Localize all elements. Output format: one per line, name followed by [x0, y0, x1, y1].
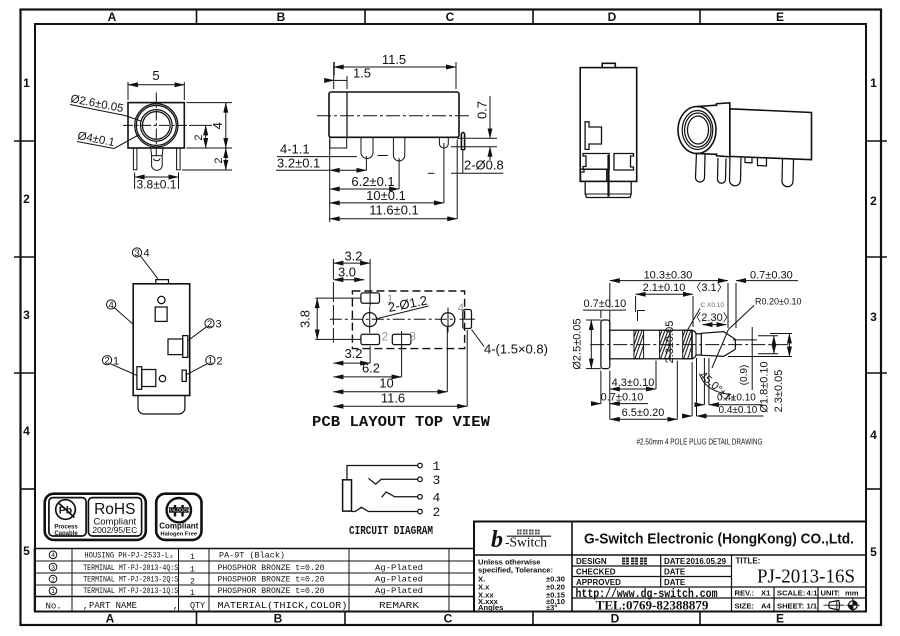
- svg-text:b: b: [491, 527, 503, 553]
- svg-text:Ag-Plated: Ag-Plated: [375, 564, 423, 573]
- svg-text:E: E: [776, 10, 784, 24]
- svg-text:PHOSPHOR BRONZE t=0.20: PHOSPHOR BRONZE t=0.20: [218, 587, 325, 596]
- lower-left clip: [581, 169, 607, 181]
- pad 2: [361, 334, 380, 344]
- svg-text:#2.50mm 4 POLE PLUG DETAIL DRA: #2.50mm 4 POLE PLUG DETAIL DRAWING: [637, 438, 763, 447]
- callout 2-3: [188, 319, 214, 341]
- centerlines: [123, 124, 189, 126]
- hole 1: [363, 313, 377, 327]
- svg-text:3.0: 3.0: [338, 265, 356, 280]
- insulator band 2: [660, 330, 671, 359]
- pad 4: [463, 310, 472, 329]
- left bracket notch: [585, 122, 601, 150]
- svg-text:REV.:: REV.:: [735, 589, 755, 598]
- svg-text:Compliant: Compliant: [159, 522, 198, 531]
- svg-text:Ø1.8±0.10: Ø1.8±0.10: [759, 361, 771, 412]
- svg-text:11.6: 11.6: [381, 390, 405, 405]
- callout 3-4: [132, 248, 157, 279]
- pin1 terminal: [418, 463, 423, 468]
- svg-text:SHEET:: SHEET:: [777, 602, 804, 611]
- barrel rings: [135, 104, 178, 147]
- svg-text:5: 5: [23, 544, 30, 558]
- svg-text:3.2: 3.2: [344, 248, 362, 263]
- svg-text:2.1±0.10: 2.1±0.10: [643, 282, 686, 294]
- svg-text:2: 2: [216, 355, 222, 367]
- svg-text:1/1: 1/1: [807, 602, 818, 611]
- rev/scale/unit: [735, 589, 859, 611]
- svg-text:C X0.10: C X0.10: [701, 302, 725, 309]
- callout 4: [107, 300, 134, 324]
- svg-text:0.7±0.10: 0.7±0.10: [584, 298, 627, 310]
- axis centerline: [317, 115, 471, 117]
- svg-text:4-(1.5×0.8): 4-(1.5×0.8): [484, 342, 548, 357]
- dim 2 (body bottom to leg end): [182, 148, 232, 170]
- svg-text:3: 3: [134, 248, 139, 259]
- center pin: [151, 148, 163, 170]
- hole 4: [441, 313, 455, 327]
- svg-text:DESIGN: DESIGN: [576, 557, 607, 566]
- svg-text:PJ-2013-16S: PJ-2013-16S: [757, 566, 855, 588]
- svg-text:1: 1: [208, 356, 213, 367]
- shaft: [610, 330, 692, 359]
- svg-text:(0.9): (0.9): [739, 365, 750, 386]
- svg-text:4: 4: [210, 122, 225, 129]
- svg-text:2-Ø0.8: 2-Ø0.8: [464, 158, 504, 173]
- svg-text:1: 1: [433, 459, 441, 474]
- svg-text:1: 1: [113, 355, 119, 367]
- left clip tab: [583, 154, 609, 170]
- pin A: [361, 137, 373, 158]
- terminal 2/1 pin: [137, 367, 142, 390]
- svg-text:Process: Process: [54, 525, 78, 531]
- flange plate: [717, 103, 730, 157]
- svg-text:Angles: Angles: [478, 603, 503, 612]
- svg-text:CIRCUIT DIAGRAM: CIRCUIT DIAGRAM: [349, 524, 433, 538]
- svg-text:No.: No.: [46, 602, 62, 612]
- svg-text:2002/95/EC: 2002/95/EC: [92, 525, 137, 535]
- svg-text:4: 4: [108, 300, 113, 311]
- jack body front: [128, 103, 184, 148]
- svg-text:2.3±0.05: 2.3±0.05: [664, 321, 676, 364]
- svg-text:E: E: [776, 612, 784, 626]
- pin C: [439, 137, 448, 148]
- svg-text:〈3.1〉: 〈3.1〉: [690, 281, 727, 294]
- svg-text:UNIT:: UNIT:: [821, 589, 840, 598]
- svg-text:0.7±0.30: 0.7±0.30: [750, 270, 793, 282]
- bottom boss: [138, 396, 185, 415]
- right leg: [177, 148, 181, 170]
- part rows: [83, 552, 423, 598]
- svg-text:10±0.1: 10±0.1: [366, 188, 406, 203]
- svg-text:6.2: 6.2: [362, 361, 380, 376]
- Pb-free + RoHS badge: [45, 494, 146, 540]
- insulator band 1: [634, 330, 644, 359]
- svg-text:APPROVED: APPROVED: [576, 578, 621, 587]
- svg-text:2: 2: [190, 578, 195, 587]
- svg-text:2: 2: [213, 157, 225, 163]
- svg-text:PHOSPHOR BRONZE t=0.20: PHOSPHOR BRONZE t=0.20: [218, 564, 325, 573]
- svg-text:TERMINAL MT-PJ-2013-2Q:S: TERMINAL MT-PJ-2013-2Q:S: [83, 576, 178, 585]
- top tab: [602, 63, 615, 67]
- terminal window: [155, 307, 167, 321]
- wire tip to pin1: [347, 466, 418, 480]
- svg-text:D: D: [611, 612, 620, 626]
- terminal numbers: [433, 459, 441, 520]
- svg-text:REMARK: REMARK: [379, 601, 420, 611]
- svg-text:±3°: ±3°: [546, 603, 557, 612]
- svg-text:5: 5: [152, 68, 159, 83]
- barrel cylinder: [678, 107, 716, 154]
- insulator band 3: [683, 330, 693, 359]
- svg-text:2: 2: [870, 194, 877, 208]
- svg-text:10.3±0.30: 10.3±0.30: [644, 270, 693, 282]
- svg-text:PART NAME: PART NAME: [89, 601, 137, 611]
- svg-text:Halogen Free: Halogen Free: [160, 532, 197, 538]
- housing outline (bottom view): [133, 284, 190, 396]
- connector top view body: [580, 68, 637, 182]
- tolerance block: [478, 558, 566, 613]
- main box: [730, 109, 812, 160]
- svg-text:0.4±0.10: 0.4±0.10: [719, 405, 758, 416]
- Halogen-free badge: [156, 494, 201, 540]
- dim 0.7 (right): [451, 96, 497, 160]
- pad 3: [392, 334, 411, 344]
- svg-text:2: 2: [23, 192, 30, 206]
- svg-text:6.2±0.1: 6.2±0.1: [351, 174, 394, 189]
- svg-text:PCB LAYOUT TOP VIEW: PCB LAYOUT TOP VIEW: [312, 414, 490, 431]
- svg-text:B: B: [274, 612, 283, 626]
- svg-text:1: 1: [23, 76, 30, 90]
- svg-text:Ø2.6±0.05: Ø2.6±0.05: [69, 93, 124, 115]
- svg-text:TERMINAL MT-PJ-2013-4Q:S: TERMINAL MT-PJ-2013-4Q:S: [83, 564, 178, 573]
- svg-text:MATERIAL(THICK,COLOR): MATERIAL(THICK,COLOR): [218, 601, 348, 611]
- axis centerline: [330, 318, 456, 320]
- svg-text:DATE: DATE: [664, 567, 686, 576]
- svg-text:A: A: [106, 612, 115, 626]
- svg-text:3.2: 3.2: [344, 346, 362, 361]
- plug sleeve symbol: [343, 480, 352, 511]
- svg-text:DATE: DATE: [664, 578, 686, 587]
- svg-text:4: 4: [144, 248, 150, 260]
- svg-text:3: 3: [870, 310, 877, 324]
- center divider: [607, 155, 609, 197]
- design rows: [576, 557, 727, 587]
- svg-text:4.3±0.10: 4.3±0.10: [612, 377, 655, 389]
- svg-text:QTY: QTY: [190, 601, 206, 611]
- svg-text:1: 1: [51, 588, 55, 595]
- left leg: [133, 148, 137, 170]
- svg-text:1: 1: [190, 566, 195, 575]
- svg-text:0.4±0.10: 0.4±0.10: [717, 393, 756, 404]
- tip: [701, 332, 735, 357]
- svg-text:2: 2: [193, 134, 205, 140]
- dim 5 (top): [128, 82, 184, 100]
- svg-text:2: 2: [433, 505, 441, 520]
- callout 1-2: [186, 356, 215, 376]
- dim 11.5: [334, 62, 456, 89]
- svg-text:1: 1: [190, 589, 195, 598]
- svg-text:1.5: 1.5: [353, 66, 371, 81]
- svg-text:3: 3: [23, 308, 30, 322]
- pins: [695, 153, 705, 183]
- svg-text:,: ,: [173, 602, 178, 612]
- dim 2 (center to bottom): [189, 125, 212, 148]
- svg-text:6.5±0.20: 6.5±0.20: [622, 407, 665, 419]
- terminal 1/2 pin: [182, 370, 186, 381]
- dim 1.5: [326, 62, 347, 89]
- b-Switch logo: [491, 527, 551, 553]
- svg-text:4-1.1: 4-1.1: [280, 142, 310, 157]
- svg-text:3: 3: [51, 564, 55, 571]
- flange: [601, 320, 610, 369]
- neck: [692, 330, 701, 358]
- svg-text:PHOSPHOR BRONZE t=0.20: PHOSPHOR BRONZE t=0.20: [218, 576, 325, 585]
- callout 2-1: [102, 356, 137, 376]
- svg-text:4: 4: [51, 552, 55, 559]
- tip hole: [159, 375, 165, 381]
- svg-text:DATE: DATE: [664, 557, 686, 566]
- svg-text:4: 4: [23, 424, 30, 438]
- svg-text:PA-9T (Black): PA-9T (Black): [219, 552, 285, 561]
- svg-text:5: 5: [870, 545, 877, 559]
- svg-text:,: ,: [83, 602, 88, 612]
- table header row: [46, 601, 420, 612]
- svg-text:2: 2: [382, 330, 389, 344]
- svg-text:2: 2: [51, 576, 55, 583]
- svg-text:B: B: [277, 10, 286, 24]
- circled item numbers: [49, 551, 57, 595]
- sleeve hole: [158, 296, 165, 303]
- svg-text:TEL:0769-82388879: TEL:0769-82388879: [596, 598, 709, 613]
- svg-text:G-Switch Electronic (HongKong): G-Switch Electronic (HongKong) CO.,Ltd.: [584, 531, 854, 548]
- pin4 wire + contact: [382, 492, 418, 497]
- svg-text:1: 1: [190, 553, 195, 562]
- gray pin numbers: [382, 292, 465, 344]
- right clip tab: [614, 154, 634, 171]
- svg-text:C: C: [444, 612, 453, 626]
- svg-text:SIZE:: SIZE:: [735, 602, 754, 611]
- svg-text:2.3±0.05: 2.3±0.05: [773, 370, 785, 413]
- svg-text:3.8±0.1: 3.8±0.1: [137, 178, 177, 192]
- svg-text:TITLE:: TITLE:: [736, 557, 761, 566]
- svg-text:3.2±0.1: 3.2±0.1: [277, 156, 320, 171]
- svg-text:3: 3: [216, 319, 222, 331]
- dim 3.8±0.1 (bottom): [135, 173, 179, 190]
- plug axis centerline: [590, 344, 791, 346]
- svg-text:4: 4: [458, 301, 465, 315]
- svg-text:2: 2: [207, 319, 212, 330]
- svg-text:specified, Tolerance:: specified, Tolerance:: [478, 566, 553, 575]
- pin2 wire + contact: [352, 507, 418, 511]
- svg-text:D: D: [608, 10, 617, 24]
- svg-text:Ø4±0.1: Ø4±0.1: [76, 130, 115, 149]
- svg-text:2016.05.29: 2016.05.29: [686, 557, 727, 566]
- dim 4 (right): [187, 103, 233, 148]
- svg-text:4: 4: [870, 428, 877, 442]
- svg-text:Ø2.5±0.05: Ø2.5±0.05: [572, 318, 584, 369]
- svg-text:RoHS: RoHS: [94, 501, 135, 518]
- svg-text:11.6±0.1: 11.6±0.1: [369, 203, 419, 218]
- top tab: [156, 280, 169, 284]
- svg-text:Capable: Capable: [54, 531, 78, 537]
- svg-text:Pb: Pb: [59, 505, 72, 517]
- svg-text:HOUSING PH-PJ-2533-L₃: HOUSING PH-PJ-2533-L₃: [84, 552, 173, 561]
- svg-text:A4: A4: [761, 602, 771, 611]
- svg-text:CHECKED: CHECKED: [576, 567, 616, 576]
- Pb crossed symbol: [56, 500, 76, 520]
- svg-text:SCALE:: SCALE:: [777, 589, 805, 598]
- svg-text:〈2.30〉: 〈2.30〉: [690, 311, 733, 324]
- svg-text:11.5: 11.5: [382, 52, 406, 67]
- jack body side: [329, 92, 459, 137]
- svg-text:C: C: [446, 10, 455, 24]
- svg-text:HALOGEN: HALOGEN: [168, 508, 189, 513]
- svg-text:2: 2: [104, 356, 109, 367]
- projection symbols: [824, 598, 860, 612]
- pcb outline dashed: [352, 291, 464, 349]
- svg-text:Ag-Plated: Ag-Plated: [375, 587, 423, 596]
- svg-text:TERMINAL MT-PJ-2013-1Q:S: TERMINAL MT-PJ-2013-1Q:S: [83, 587, 178, 596]
- pin B: [393, 137, 404, 161]
- terminal 2/3 pin: [168, 339, 183, 355]
- svg-text:mm: mm: [845, 589, 859, 598]
- svg-text:Ag-Plated: Ag-Plated: [375, 576, 423, 585]
- svg-text:A: A: [108, 10, 117, 24]
- bottom boss: [585, 181, 631, 197]
- svg-text:0.7±0.10: 0.7±0.10: [601, 392, 644, 404]
- svg-text:4:1: 4:1: [807, 589, 819, 598]
- svg-text:10: 10: [379, 376, 393, 391]
- svg-text:1: 1: [870, 76, 877, 90]
- svg-text:R0.20±0.10: R0.20±0.10: [755, 297, 801, 307]
- small tabs under box: [745, 157, 752, 163]
- pad 1: [361, 293, 380, 303]
- side pin D: [461, 132, 464, 149]
- pin3 wire + contact: [369, 478, 418, 484]
- svg-text:3.8: 3.8: [298, 310, 313, 328]
- svg-text:4: 4: [433, 491, 441, 506]
- svg-text:3: 3: [433, 473, 441, 488]
- svg-text:0.7: 0.7: [475, 101, 490, 119]
- svg-text:X1: X1: [761, 589, 771, 598]
- svg-text:3: 3: [409, 330, 416, 344]
